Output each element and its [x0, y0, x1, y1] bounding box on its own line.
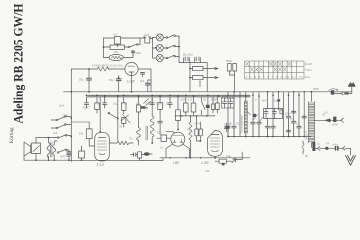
electrolytic blob a	[253, 114, 256, 117]
table column lines	[250, 61, 297, 79]
transformer T1 core	[51, 142, 52, 157]
tube V2 grid	[173, 135, 182, 137]
fuse on bus	[331, 90, 334, 94]
wire v1	[227, 92, 229, 126]
tube V3 grids	[211, 138, 220, 147]
capacitor rg3	[297, 126, 301, 136]
mains switch S5a	[66, 116, 71, 118]
wire top horizontal	[104, 37, 146, 39]
bus A (main horizontal)	[64, 91, 353, 93]
resistor R4 (to table arrow 2)	[193, 76, 204, 80]
svg-text:µF00: µF00	[332, 123, 339, 127]
input box	[32, 143, 41, 154]
svg-text:L 83: L 83	[202, 161, 209, 165]
svg-text:0,1: 0,1	[160, 146, 164, 150]
wire mid distribution	[175, 115, 215, 117]
antenna arrow (bottom right)	[346, 156, 356, 166]
capacitor c-row1	[84, 97, 88, 108]
wire v5	[267, 119, 269, 127]
oscillator coil (vertical)	[245, 92, 247, 101]
capacitor c-grid (small box)	[122, 118, 126, 124]
electrolytic oval (dark)	[144, 152, 150, 155]
svg-text:8µF: 8µF	[140, 79, 145, 83]
switch S1 (power selector)	[128, 46, 130, 48]
wire rectifier cathode right	[138, 69, 151, 92]
wire mid horizontal collector	[228, 136, 311, 138]
tube V3 cathode	[212, 151, 219, 152]
capacitor rg1	[286, 116, 290, 136]
wire v5 feeds	[268, 92, 279, 110]
switch S2 (lamp 1)	[163, 37, 166, 39]
transformer T1 secondary	[53, 145, 56, 156]
resistor grid box	[86, 129, 92, 139]
capacitor C2 (electrolytic)	[184, 58, 190, 63]
svg-text:5000: 5000	[285, 112, 291, 116]
wire from resistor U5 bottom to node	[117, 44, 119, 47]
wire loop box	[264, 109, 283, 119]
wire v7	[283, 92, 285, 137]
bottom rail far left	[24, 159, 71, 161]
capacitor C1 (by switch)	[132, 51, 135, 52]
capacitor cv5	[265, 126, 269, 136]
wire heater rail left rise	[70, 69, 72, 92]
node arrow b	[205, 76, 218, 78]
resistor r-row5	[184, 103, 189, 112]
wire down from resistor rail to bus	[189, 80, 191, 92]
svg-text:Tastenaggregat: Tastenaggregat	[240, 115, 244, 133]
svg-text:TA: TA	[326, 142, 329, 146]
barretter U5b (oval with zigzag)	[109, 54, 123, 60]
small coil bottom	[302, 143, 304, 151]
svg-text:0,5: 0,5	[187, 128, 191, 132]
wire transformer top	[311, 92, 313, 102]
capacitor cv2	[232, 126, 236, 136]
wire V3 cathode	[214, 156, 216, 158]
capacitor C5 (filter)	[118, 76, 120, 79]
capacitor rg1b	[286, 130, 290, 132]
capacitor C3 (electrolytic)	[195, 58, 201, 63]
fuse F1 on top wire	[144, 37, 151, 43]
svg-text:Adeling RB 2205 GW/H: Adeling RB 2205 GW/H	[11, 4, 26, 124]
switch blade mr3	[247, 111, 251, 116]
speaker plug bar (dark)	[333, 117, 336, 122]
capacitor C4 (filter)	[88, 69, 90, 78]
capacitor in loop 1	[264, 109, 268, 119]
electrolytic blob b	[277, 99, 280, 101]
svg-text:0,2A: 0,2A	[144, 33, 150, 37]
resistor vertical zigzag (volume)	[189, 122, 192, 140]
svg-text:5000: 5000	[313, 87, 319, 91]
tube V2 diodes	[173, 140, 176, 143]
electrolytic blob	[141, 106, 145, 109]
switch above resistor	[71, 121, 89, 123]
resistor r-row3	[136, 105, 140, 112]
wire long vertical v-mid	[117, 97, 119, 141]
svg-text:50µ: 50µ	[79, 78, 84, 82]
resistor r-row6	[191, 103, 196, 112]
switch S3 (lamp 2)	[163, 47, 166, 49]
svg-text:Ausg.Tr.: Ausg.Tr.	[304, 130, 308, 140]
wire down right group 2	[293, 92, 295, 121]
svg-text:1M: 1M	[136, 102, 140, 106]
svg-text:I 82: I 82	[173, 161, 179, 165]
electrolytic blob row7	[206, 105, 210, 108]
resistor U5a (horizontal box)	[110, 45, 125, 49]
capacitor C6 (right filter)	[145, 83, 150, 85]
arrow right of v3	[232, 159, 236, 163]
dashed block caps	[222, 98, 235, 108]
speaker cone	[24, 142, 31, 156]
capacitor bars (dark)	[335, 146, 337, 151]
wave trap box	[79, 151, 85, 158]
resistor heater (zigzag)	[97, 67, 109, 71]
switch blade mr2	[259, 117, 264, 123]
switch S4 (lamp 3)	[163, 57, 166, 59]
svg-text:0,1: 0,1	[290, 117, 294, 121]
lamp La3	[156, 55, 163, 62]
wire barretter leads	[104, 51, 134, 58]
resistor r-row8	[215, 103, 219, 110]
wire input bottom	[24, 154, 36, 161]
wire v4	[258, 92, 260, 122]
speaker arrow (filled, pointing left)	[325, 119, 331, 122]
left rail	[70, 92, 72, 162]
switch s-row3 (diagonals)	[144, 99, 151, 106]
svg-text:1 2 3 4 5 6 7 8 9 10 11 12: 1 2 3 4 5 6 7 8 9 10 11 12	[246, 75, 304, 79]
tube V1 cathode	[99, 154, 105, 155]
svg-text:5000: 5000	[226, 59, 232, 63]
svg-text:0,1: 0,1	[97, 102, 101, 106]
tube V3 anode	[211, 134, 219, 136]
grid resistor V3	[199, 129, 202, 136]
capacitor cv6	[271, 126, 275, 136]
capacitor cv4	[257, 122, 261, 136]
svg-text:2M: 2M	[144, 107, 148, 111]
resistor r-row7b	[211, 104, 214, 110]
switch blade mr1	[253, 115, 258, 121]
capacitor pair above bus	[228, 64, 232, 72]
tube V3 envelope	[208, 131, 223, 157]
resistor U5 (vertical box)	[115, 37, 121, 45]
plug chevron b1	[318, 146, 320, 150]
svg-text:4972: 4972	[60, 155, 66, 159]
svg-text:50µ: 50µ	[157, 131, 162, 135]
wire input top	[36, 138, 57, 144]
svg-text:5000: 5000	[83, 106, 89, 110]
table row lines	[245, 67, 304, 73]
svg-text:0,3M: 0,3M	[180, 98, 186, 102]
svg-text:100: 100	[146, 102, 151, 106]
output transformer primary (ladder coil)	[309, 102, 315, 144]
bus B (double line)	[88, 95, 251, 97]
svg-text:5000: 5000	[156, 102, 162, 106]
capacitor in loop 2	[272, 109, 276, 119]
tube V2 leads	[166, 144, 190, 158]
table X marks row1	[246, 62, 292, 66]
plug body	[344, 92, 348, 94]
padder capacitor (stack)	[67, 152, 71, 156]
plug chevron	[341, 118, 344, 122]
capacitor rg4	[302, 116, 306, 118]
resistor r-row4b (V2 feed)	[176, 110, 181, 121]
svg-text:220V: 220V	[62, 114, 68, 118]
wire to wall plug	[349, 87, 352, 94]
wire grid top from bus	[99, 97, 101, 132]
svg-text:2mA: 2mA	[59, 104, 65, 108]
wire down right group 4	[303, 92, 305, 137]
svg-text:U 42: U 42	[127, 80, 135, 84]
lamp La2	[156, 45, 163, 52]
svg-text:150: 150	[205, 169, 210, 173]
svg-text:0,5: 0,5	[296, 122, 300, 126]
wire v0	[239, 92, 241, 137]
svg-text:0,1: 0,1	[129, 137, 133, 141]
wall plug	[348, 84, 355, 87]
capacitor right of V3	[225, 127, 229, 129]
resistor R3 (to table arrow 1)	[193, 67, 204, 71]
capacitor cv1	[226, 126, 230, 136]
wire down right group	[288, 92, 290, 116]
svg-text:5000: 5000	[135, 51, 141, 55]
svg-text:0,1µ: 0,1µ	[113, 102, 119, 106]
capacitor cv3	[251, 122, 255, 136]
plug contact arrow	[341, 92, 344, 95]
trimmer arrow	[121, 115, 130, 124]
svg-text:UCH11UBF11UCL11UY11: UCH11UBF11UCL11UY11	[92, 63, 124, 67]
pickup diagonal	[33, 146, 40, 152]
svg-text:Σ 13: Σ 13	[96, 163, 104, 167]
series capacitor bottom	[134, 153, 136, 156]
coupling capacitor V2-V3	[195, 129, 198, 136]
tube UY11 (rectifier)	[125, 62, 138, 75]
tube V1 anode	[99, 137, 106, 139]
switch s-in1	[57, 137, 59, 139]
svg-text:Kont.: Kont.	[305, 75, 311, 79]
wire v3	[252, 92, 254, 122]
wire down from cap rail to resistor rail	[189, 63, 191, 80]
svg-text:5000: 5000	[211, 98, 217, 102]
svg-text:+Wa: +Wa	[333, 142, 339, 146]
wire V1 anode right	[109, 142, 117, 144]
wire rectifier anode down to bus	[131, 76, 133, 92]
svg-text:50µ: 50µ	[109, 78, 114, 82]
svg-text:0,1: 0,1	[166, 102, 170, 106]
IF coil 1	[137, 128, 141, 141]
wire mid horizontal	[104, 46, 129, 48]
wire bottom connect	[140, 158, 163, 161]
capacitor rg2b	[292, 111, 296, 113]
tube V1 grids	[98, 141, 107, 150]
capacitor rg2	[292, 121, 296, 136]
svg-text:110: 110	[53, 131, 58, 135]
svg-text:Körting: Körting	[9, 127, 15, 144]
table X marks row2	[250, 68, 286, 72]
arc over fuse	[329, 89, 338, 91]
switch s-row	[202, 97, 206, 115]
wire heater rail	[71, 68, 125, 70]
transformer T1 primary	[47, 143, 50, 158]
mains switch S5b	[64, 124, 66, 126]
wire down right group 3	[298, 92, 300, 126]
wire left vertical of power loop	[103, 38, 105, 58]
IF coil 2	[150, 116, 154, 137]
svg-text:U5a: U5a	[114, 50, 119, 54]
tube V2 envelope	[171, 132, 185, 146]
capacitor c-row2	[103, 97, 107, 108]
svg-text:Rundf.: Rundf.	[305, 62, 313, 66]
tube V1 envelope	[95, 132, 110, 161]
switch s-in2	[57, 152, 59, 154]
resistor r-row2	[121, 103, 126, 111]
bottom chain: output to antenna	[311, 143, 313, 148]
svg-text:50µ 50µ: 50µ 50µ	[183, 53, 193, 57]
wire to speaker plug	[314, 119, 341, 121]
svg-text:0,5µ: 0,5µ	[226, 154, 232, 158]
table frame	[245, 61, 304, 79]
svg-text:T.Abn.: T.Abn.	[305, 68, 313, 72]
resistor box bottom	[138, 152, 142, 158]
svg-text:2µ: 2µ	[317, 142, 320, 146]
wire under capacitors	[181, 62, 207, 64]
resistor zig (V1 anode)	[117, 141, 129, 145]
wire lamp left rail	[153, 38, 157, 59]
wire transformer top	[49, 138, 58, 145]
plug chevron b2	[343, 146, 345, 150]
wire v6	[272, 92, 274, 126]
secondary winding bar (dark)	[312, 142, 315, 151]
bypass square v3	[222, 163, 225, 165]
wire V2 grid stub	[166, 132, 175, 133]
wire lamp right rail	[179, 36, 181, 63]
connector square (dark)	[325, 147, 328, 150]
svg-text:10k: 10k	[79, 132, 84, 136]
svg-text:0,7M: 0,7M	[194, 122, 200, 126]
svg-text:U 5: U 5	[113, 33, 118, 37]
node arrow a	[205, 67, 218, 69]
svg-text:4µF: 4µF	[262, 99, 267, 103]
cathode resistor v3	[219, 159, 227, 163]
capacitor on v-160	[158, 121, 162, 123]
resistor r-row1	[95, 103, 100, 110]
svg-text:4µF: 4µF	[274, 99, 279, 103]
lamp La1	[156, 34, 163, 41]
wire v2 top from bus	[177, 97, 179, 130]
svg-text:5000: 5000	[224, 123, 230, 127]
small box on loop right	[280, 110, 283, 114]
wire transformer bottom	[49, 155, 55, 160]
resistor r-row4	[158, 102, 163, 109]
capacitor c-row3	[150, 97, 154, 105]
capacitor c-row4	[168, 97, 172, 108]
bottom rail left	[69, 159, 140, 161]
switch s-mid (diagonal)	[110, 114, 118, 119]
svg-text:1M: 1M	[188, 98, 192, 102]
component left of V2	[161, 135, 167, 142]
bottom rail right	[160, 157, 250, 159]
wire v2	[233, 92, 235, 126]
core lines between coils	[146, 126, 148, 140]
capacitor C7 (small, by tube)	[141, 72, 145, 74]
svg-text:0,4: 0,4	[324, 111, 328, 115]
